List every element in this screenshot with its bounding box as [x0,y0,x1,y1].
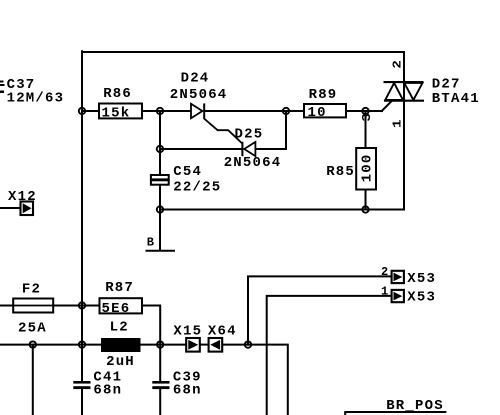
block BR_POS [344,398,446,415]
svg-text:25A: 25A [18,320,47,336]
svg-text:X53: X53 [407,290,436,306]
thyristor D25 2N5064 [224,126,282,171]
svg-text:R86: R86 [103,86,132,102]
junction nodes [30,108,369,348]
svg-text:X53: X53 [407,271,436,287]
svg-text:2: 2 [391,59,405,69]
wire X53 pin1 [267,296,392,415]
wire R87 right [142,306,160,345]
svg-text:68n: 68n [93,383,122,399]
wire top loop [82,51,404,53]
wire bottom left stub [32,345,34,415]
wire L2 to X15 [141,344,187,346]
wire C39 stem [159,345,161,381]
connector X12 [8,189,37,215]
connector X15 [173,324,202,352]
node gate [362,108,368,114]
connector X53 pin 1 [381,284,436,305]
node R86 left [79,108,85,114]
wire X15 to X64 [200,344,209,346]
wire R85 top stem [365,111,367,148]
wire C54 bottom stem and B stub [159,185,161,251]
wire D24 to R89 [205,110,305,112]
svg-text:1: 1 [391,118,405,128]
svg-text:2N5064: 2N5064 [170,87,228,103]
wire main AC row left [0,344,101,346]
node bottom stub [30,341,36,347]
net label B [146,235,176,250]
svg-text:15k: 15k [102,106,131,122]
svg-text:B: B [147,235,155,249]
wire R86 to D24 [142,110,191,112]
svg-text:X12: X12 [8,189,37,205]
wire right vertical above triac [403,52,405,83]
svg-text:F2: F2 [22,281,41,297]
wire D25 row right [255,148,286,150]
node X53-2 tap [245,341,251,347]
svg-text:X15: X15 [173,324,202,340]
wire fuse row [0,305,100,307]
node R89 left [283,108,289,114]
wire node to D25 row [285,111,287,149]
svg-text:22/25: 22/25 [173,179,221,195]
capacitor C39 [152,370,201,399]
wire X12 lead [0,207,21,209]
thyristor D24 2N5064 [170,71,243,144]
wire R89 to gate junction [346,110,382,112]
capacitor C41 [73,370,122,399]
svg-text:L2: L2 [110,319,129,335]
wire left vertical below C41 [81,389,83,415]
node D25 row [157,146,163,152]
node C41 top [79,341,85,347]
wire R86 left [82,110,99,112]
svg-text:D24: D24 [181,71,210,87]
svg-text:10: 10 [308,105,327,121]
node C39 top [157,341,163,347]
wire C39 bottom stem [159,389,161,415]
resistor R87 [100,280,143,317]
resistor R89 [304,87,346,121]
inductor L2 [101,319,141,370]
wire D25 row left [160,148,243,150]
svg-text:2: 2 [381,265,389,279]
svg-text:2uH: 2uH [106,354,135,370]
svg-text:X64: X64 [208,324,237,340]
node R85 bottom [362,206,368,212]
wire X64 to right bend [222,345,288,415]
wire left vertical [81,51,83,381]
fuse F2 [13,281,53,336]
wire R85 bottom stem [365,190,367,210]
node fuse/R87 [79,302,85,308]
wire C54 top stem [159,111,161,175]
wire right vertical below triac [403,101,405,210]
wire X53 pin2 [248,276,392,344]
svg-text:BTA41: BTA41 [432,91,480,107]
svg-text:100: 100 [360,153,376,182]
svg-text:D25: D25 [235,126,264,142]
svg-text:1: 1 [381,284,389,298]
node D24 anode [157,108,163,114]
svg-text:12M/63: 12M/63 [7,91,65,107]
node C54 bottom [157,206,163,212]
capacitor C37 (partial at edge) [0,77,64,107]
triac D27 BTA41 [360,59,480,128]
svg-text:5E6: 5E6 [102,301,131,317]
wire bottom of trigger block [160,209,404,211]
svg-text:2N5064: 2N5064 [224,155,282,171]
wire gate diagonal to triac [382,101,392,111]
svg-text:R85: R85 [326,164,355,180]
svg-text:68n: 68n [173,383,202,399]
resistor R86 [99,86,142,122]
svg-text:R89: R89 [309,87,338,103]
svg-text:R87: R87 [105,280,134,296]
connector X64 [208,324,237,352]
connector X53 pin 2 [381,265,436,287]
capacitor C54 [151,164,221,195]
svg-text:C54: C54 [173,164,202,180]
resistor R85 [326,148,376,190]
